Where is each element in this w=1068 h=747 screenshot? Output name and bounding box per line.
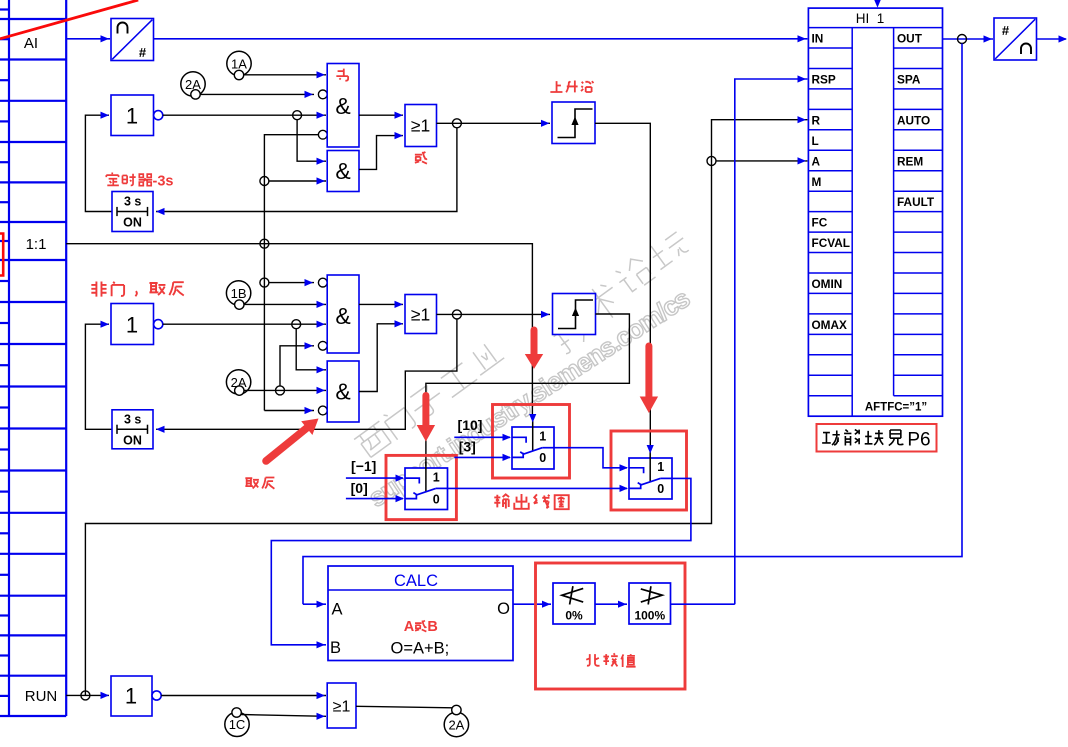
signal rail (left terminal column) (0, 0, 66, 716)
svg-text:O=A+B;: O=A+B; (391, 640, 450, 658)
svg-text:A: A (404, 619, 415, 635)
wire timer T2 out to NOT N2 (85, 324, 112, 429)
svg-text:≥1: ≥1 (333, 699, 351, 716)
svg-text:SPA: SPA (897, 73, 921, 87)
wire U2 out to OR O1 (359, 136, 403, 170)
wire S3 out down-left to CALC.B (271, 478, 691, 644)
connector 1A (227, 51, 251, 79)
svg-text:&: & (335, 93, 350, 119)
svg-text:1: 1 (126, 312, 138, 337)
junction on N2 out (292, 320, 301, 329)
svg-text:0: 0 (433, 492, 440, 506)
wire U4 out to OR O2 (359, 324, 403, 392)
svg-text:[0]: [0] (351, 480, 368, 496)
selector switch S3 (620, 445, 673, 499)
svg-text:ON: ON (123, 216, 142, 230)
svg-text:P6: P6 (907, 430, 930, 451)
red highlight box around S3 (611, 431, 687, 510)
rising edge detector F1 (552, 102, 595, 144)
CALC block (328, 566, 513, 661)
wire O3 out to connector 2A (356, 706, 452, 708)
D/A converter block (994, 18, 1037, 60)
svg-text:[10]: [10] (458, 417, 483, 433)
red margin bracket left edge (0, 234, 3, 276)
red arrow over S3 (645, 346, 652, 397)
label: see function block P6 (red box) (817, 424, 937, 452)
svg-text:-3s: -3s (153, 173, 174, 189)
AND gate U3 (327, 275, 359, 353)
connector 1C (225, 708, 249, 737)
red margin line (crop of sheet frame) (0, 0, 138, 39)
bus x=264 to U4 negated input (264, 410, 314, 412)
wire 1B to AND U3 (244, 303, 326, 305)
svg-text:0: 0 (539, 451, 546, 465)
wire RUN from rail (66, 694, 109, 696)
svg-text:2A: 2A (448, 717, 464, 732)
svg-text:1:1: 1:1 (26, 236, 47, 253)
wire S2 out to S3 input 1 (554, 448, 627, 468)
junction RUN (81, 691, 90, 700)
label comparison value (red) (586, 653, 635, 667)
junction on R/A feed (707, 156, 716, 165)
svg-text:RSP: RSP (812, 73, 836, 87)
wire HI.OUT to D/A (943, 38, 994, 40)
red highlight box around S1 (386, 455, 456, 519)
NOT gate N3 (111, 676, 161, 716)
wire [-1] const to S1 (346, 477, 403, 479)
svg-text:OMIN: OMIN (812, 277, 843, 291)
wire 2A to AND U1 negated input (200, 93, 314, 95)
svg-text:R: R (812, 113, 821, 127)
connector 1B (226, 281, 250, 310)
svg-text:1: 1 (539, 430, 546, 444)
wire NOT N1 out to AND gates (163, 114, 326, 116)
junction on O1 output (452, 119, 461, 128)
svg-text:O: O (497, 600, 510, 618)
junction on OUT (958, 35, 967, 44)
svg-text:HI 1: HI 1 (856, 11, 885, 26)
svg-text:≥1: ≥1 (411, 305, 430, 325)
wire U1 out to OR O1 (359, 114, 403, 116)
wire A/D out to HI.IN (blue bus) (154, 38, 808, 40)
svg-text:1: 1 (125, 684, 137, 709)
svg-text:OUT: OUT (897, 32, 923, 46)
wire C2 out (up to HI.RSP) (671, 603, 735, 605)
svg-text:B: B (330, 639, 341, 657)
junction on 2A wire (276, 386, 285, 395)
svg-text:3 s: 3 s (124, 195, 141, 209)
wire C1 to C2 (595, 603, 627, 605)
svg-text:M: M (812, 175, 822, 189)
branch up to U3 negated input (280, 346, 314, 386)
svg-text:AI: AI (24, 35, 38, 52)
svg-text:IN: IN (812, 32, 824, 46)
svg-text:#: # (139, 45, 147, 60)
rising edge detector F2 (553, 294, 596, 335)
label OR (red) (415, 152, 427, 164)
red highlight box around S2 (493, 405, 570, 479)
wire D/A out (to sheet edge) (1037, 38, 1067, 40)
svg-text:ON: ON (123, 433, 142, 447)
svg-text:1: 1 (433, 470, 440, 484)
svg-text:FCVAL: FCVAL (812, 236, 850, 250)
AND gate U2 (327, 151, 359, 192)
junction on O2 out (452, 310, 461, 319)
AND U1 negated input from bus (318, 130, 327, 139)
svg-text:0: 0 (657, 482, 664, 496)
svg-text:1: 1 (657, 460, 664, 474)
junction 1:1 with bus x=264 (260, 239, 269, 248)
svg-text:L: L (812, 134, 819, 148)
OR gate O2 (405, 295, 437, 334)
svg-text:REM: REM (897, 154, 923, 168)
svg-text:3 s: 3 s (124, 413, 141, 427)
svg-text:&: & (335, 303, 350, 329)
svg-text:1B: 1B (231, 286, 247, 301)
svg-text:A: A (812, 154, 821, 168)
1:1 line from rail to selector S2 (66, 244, 532, 418)
wire F1 out, down to selector S3 (595, 123, 650, 447)
label inversion (red) (245, 478, 274, 489)
junction bus to AND U2 (260, 177, 269, 186)
selector switch S2 (503, 414, 555, 469)
label AND (red) (336, 69, 348, 81)
label rising-edge (red) (550, 81, 593, 93)
svg-text:1C: 1C (229, 717, 246, 732)
svg-text:FAULT: FAULT (897, 195, 935, 209)
RSP feed vertical (from comparators) (735, 79, 808, 604)
AND gate U4 (327, 361, 359, 422)
wire AI to A/D converter (66, 38, 110, 40)
svg-text:[−1]: [−1] (351, 458, 376, 474)
OR gate O3 (327, 683, 356, 728)
red arrow over S1 (422, 396, 429, 426)
connector 2A (bottom) (444, 705, 468, 736)
wire F2 out, down-left to selector S1 (426, 314, 630, 466)
timer T1 (3s ON delay) (112, 192, 153, 232)
wire junction down to AND U2 input (297, 120, 326, 162)
watermark (rotated light gray) (354, 228, 695, 513)
svg-text:FC: FC (812, 216, 828, 230)
wire junction down-left to timer T2 (156, 319, 457, 429)
junction node on N1 output (293, 111, 302, 120)
svg-text:OMAX: OMAX (812, 318, 848, 332)
svg-text:RUN: RUN (25, 688, 58, 705)
comparator C1 (< 0%) (553, 583, 595, 624)
vertical bus x=264 (feedback from 1:1 line) (264, 135, 319, 411)
wire timer T1 out to NOT N1 in (85, 115, 112, 211)
wire N2 out to AND U3 (163, 323, 326, 325)
svg-text:1A: 1A (231, 56, 247, 71)
wire N3 out to OR O3 (161, 695, 326, 697)
OR gate O1 (405, 105, 437, 147)
svg-text:AFTFC=”1”: AFTFC=”1” (865, 402, 927, 414)
controller block HI 1 (808, 8, 942, 416)
svg-text:A: A (332, 601, 343, 619)
red diagonal arrow (points at negated input) (266, 428, 307, 461)
wire junction down to timer T1 (156, 128, 457, 212)
NOT gate N2 (111, 304, 163, 345)
svg-text:CALC: CALC (394, 572, 438, 590)
wire [10] const to S2 (454, 436, 510, 438)
timer T2 (3s ON delay) (112, 410, 153, 449)
wire S1 out to S3 input 0 (448, 487, 628, 489)
svg-text:0%: 0% (565, 609, 583, 623)
svg-text:100%: 100% (634, 609, 665, 623)
svg-text:&: & (335, 379, 350, 405)
label timer-3s (red) (106, 172, 152, 185)
wire 2A to AND U4 (244, 389, 326, 391)
svg-text:1: 1 (126, 103, 138, 128)
connector 2A (middle) (226, 370, 250, 396)
junction bus x=264 to U3 negated input (260, 278, 269, 287)
wire [3] const to S2 (454, 456, 510, 458)
svg-text:[3]: [3] (459, 438, 476, 454)
label output coil (red) (494, 494, 568, 509)
red highlight box (comparison values) (536, 563, 686, 689)
A/D converter block (analog to digital) (111, 19, 154, 61)
svg-text:≥1: ≥1 (411, 116, 430, 136)
red arrow over S2 (531, 330, 538, 354)
wire 1C to OR O3 (241, 715, 326, 717)
RUN feedback vertical to HI R and A (85, 120, 807, 696)
connector 2A (top) (181, 72, 205, 99)
comparator C2 (> 100%) (629, 583, 671, 624)
branch to AND U4 (296, 329, 326, 370)
wire 1A to AND U1 (244, 74, 326, 76)
NOT gate N1 (111, 95, 163, 136)
selector switch S1 (396, 462, 448, 510)
wire into HI top (877, 0, 879, 3)
OUT feedback down and to CALC.A (303, 44, 962, 605)
wire CALC.O to comparator C1 (513, 603, 551, 605)
AND gate U1 (327, 64, 359, 148)
svg-text:#: # (1002, 23, 1010, 38)
label NOT-gate,inversion (red) (91, 281, 183, 296)
wire U3 out to OR O2 (359, 303, 403, 305)
wire [0] const to S1 (346, 498, 403, 500)
svg-text:B: B (427, 619, 437, 635)
wire O2 out to edge detector F2 (437, 313, 551, 315)
wire O1 out to edge detector (437, 122, 551, 124)
svg-text:AUTO: AUTO (897, 113, 930, 127)
svg-text:&: & (335, 158, 350, 184)
